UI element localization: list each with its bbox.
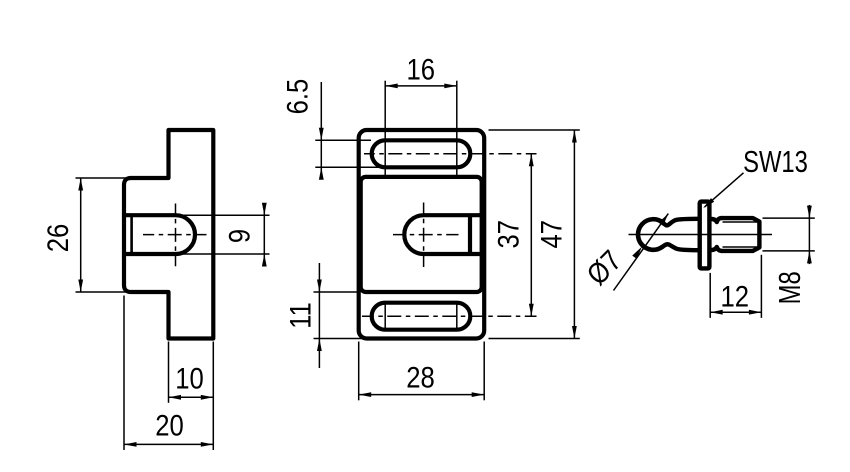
svg-text:Ø7: Ø7 bbox=[580, 244, 628, 292]
dimension 26 extension lines bbox=[76, 177, 127, 179]
threaded shank M8 outline bbox=[721, 218, 759, 251]
svg-text:20: 20 bbox=[155, 409, 184, 442]
svg-text:28: 28 bbox=[406, 361, 435, 394]
svg-text:37: 37 bbox=[492, 220, 525, 249]
dimension 11 line bbox=[318, 263, 320, 368]
dimension 10 line bbox=[169, 396, 214, 398]
leader SW13 bbox=[705, 173, 744, 207]
neck bottom profile bbox=[663, 244, 698, 250]
dimension 10 extension lines bbox=[168, 342, 170, 403]
top slot centerline bbox=[364, 153, 537, 155]
slot horizontal centerline bbox=[143, 234, 207, 236]
dimension 28 extension lines bbox=[358, 342, 360, 401]
dimension 16 extension lines bbox=[384, 81, 386, 176]
thread minor line bottom bbox=[723, 246, 759, 248]
svg-text:SW13: SW13 bbox=[743, 144, 808, 179]
dimension 47 line bbox=[573, 130, 575, 339]
dimension 9 line bbox=[263, 204, 265, 267]
ball (C-arc) bbox=[638, 219, 663, 250]
svg-text:16: 16 bbox=[406, 53, 435, 86]
central slot horizontal centerline bbox=[393, 234, 459, 236]
dimension 28 line bbox=[359, 394, 485, 396]
dimension 16 line bbox=[385, 85, 457, 87]
leader diameter 7 bbox=[614, 214, 669, 291]
bottom slot centerline bbox=[362, 315, 537, 317]
svg-text:9: 9 bbox=[223, 229, 256, 243]
dimension 47 extension lines bbox=[489, 129, 580, 131]
dimension 37 line bbox=[530, 154, 532, 316]
central slot closed-end line bbox=[468, 215, 472, 254]
dimension 11 extension lines bbox=[314, 291, 358, 293]
dimension 20 extension line bbox=[123, 296, 125, 451]
dimension 26 line bbox=[80, 178, 82, 292]
svg-text:12: 12 bbox=[721, 280, 750, 313]
svg-text:26: 26 bbox=[41, 224, 74, 253]
collar fillet top bbox=[712, 218, 722, 222]
dimension 6.5 extension lines bbox=[315, 139, 371, 141]
bottom slot right center tick bbox=[456, 303, 458, 331]
ball stud axis centerline bbox=[629, 234, 773, 236]
flange SW13 (side view) bbox=[700, 202, 710, 269]
svg-text:47: 47 bbox=[535, 220, 568, 249]
dimension M8 extension lines bbox=[763, 217, 815, 219]
side view outline (plate + boss) bbox=[124, 130, 213, 339]
bottom slot (16x6.5) bbox=[372, 303, 471, 330]
svg-text:M8: M8 bbox=[772, 271, 807, 304]
dimension 6.5 line bbox=[320, 82, 322, 177]
front view plate outline bbox=[359, 130, 485, 339]
slot vertical centerline bbox=[175, 204, 177, 267]
collar fillet bottom bbox=[712, 247, 722, 251]
dimension 9 extension lines bbox=[177, 214, 270, 216]
svg-text:10: 10 bbox=[175, 362, 204, 395]
dimension 12 line bbox=[710, 311, 761, 313]
central slot vertical centerline bbox=[423, 203, 425, 268]
dimension M8 line bbox=[808, 205, 810, 264]
bottom slot left center tick bbox=[384, 303, 386, 331]
slot closed-end line bbox=[130, 215, 133, 254]
neck top profile bbox=[663, 219, 698, 226]
front view boss band bbox=[361, 177, 482, 292]
svg-text:11: 11 bbox=[284, 302, 317, 329]
side view slot (9 wide) bbox=[125, 215, 196, 254]
top slot (16x6.5) bbox=[372, 140, 471, 167]
svg-text:6.5: 6.5 bbox=[281, 79, 314, 115]
dimension 12 extension lines bbox=[709, 273, 711, 318]
thread minor line top bbox=[723, 221, 759, 223]
central slot (9 wide) bbox=[404, 215, 481, 254]
dimension 20 line bbox=[124, 443, 213, 445]
